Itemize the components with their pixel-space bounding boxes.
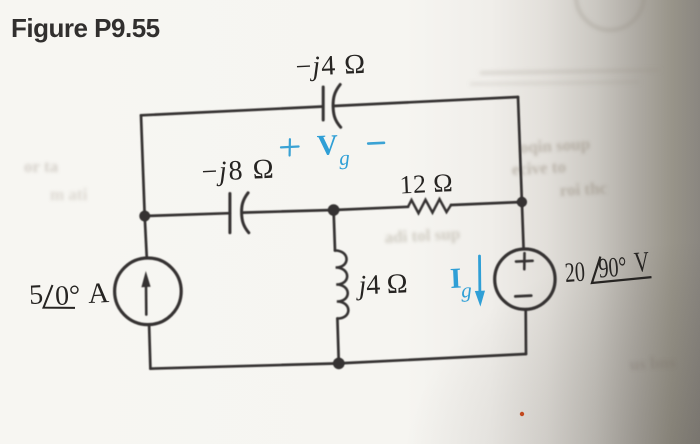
svg-text:us bns: us bns: [629, 353, 676, 374]
svg-text:−j8 Ω: −j8 Ω: [201, 154, 274, 188]
svg-text:5: 5: [28, 279, 43, 311]
svg-text:or ta: or ta: [24, 157, 59, 176]
svg-text:20: 20: [564, 257, 586, 289]
svg-text:oqin soup: oqin soup: [519, 134, 590, 157]
svg-text:g: g: [339, 146, 351, 170]
svg-text:A: A: [87, 277, 109, 310]
svg-text:roi thc: roi thc: [559, 179, 608, 200]
svg-text:j4 Ω: j4 Ω: [355, 268, 408, 301]
svg-text:V: V: [633, 246, 650, 279]
svg-text:m ati: m ati: [50, 185, 88, 204]
svg-text:12 Ω: 12 Ω: [399, 168, 453, 199]
svg-text:V: V: [316, 129, 338, 162]
svg-text:g: g: [461, 278, 473, 302]
svg-text:−j4 Ω: −j4 Ω: [295, 49, 366, 83]
svg-text:adi tol sup: adi tol sup: [384, 224, 460, 247]
